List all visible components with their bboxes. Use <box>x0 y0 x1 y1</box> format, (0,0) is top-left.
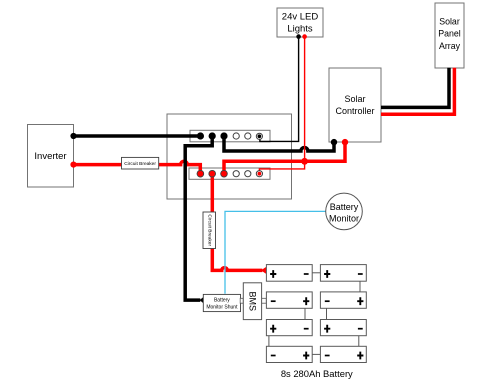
svg-text:Array: Array <box>439 41 461 51</box>
battery cell B3 <box>266 292 312 308</box>
svg-text:BMS: BMS <box>247 291 257 311</box>
negative bus terminals <box>197 133 263 140</box>
svg-text:Controller: Controller <box>335 106 374 116</box>
svg-text:Battery: Battery <box>214 298 230 304</box>
wire positive bus through CB2 to battery positive (red, hop over cyan) <box>212 174 262 271</box>
negative bus bar <box>190 130 270 142</box>
battery monitor shunt <box>203 294 240 311</box>
controller positive terminal <box>342 139 348 145</box>
wire negative bus to battery monitor shunt (black) <box>185 136 212 300</box>
wire LED negative to bus (thin black) <box>260 37 299 142</box>
battery link rows2-3 left column <box>304 308 306 319</box>
circuit breaker CB2 (battery positive) <box>203 212 216 249</box>
inverter negative terminal <box>70 133 76 139</box>
battery link rows3-4 right column <box>358 336 360 347</box>
battery cell B1 <box>266 265 312 282</box>
battery link rows1-2 right column <box>359 281 361 292</box>
svg-text:Panel: Panel <box>438 29 461 39</box>
battery cell B7 <box>266 346 312 362</box>
inverter positive terminal <box>70 162 76 168</box>
battery cell B4 <box>320 292 366 308</box>
controller negative terminal <box>331 139 337 145</box>
24v LED lights <box>277 8 323 37</box>
wire solar panel positive to controller (red) <box>381 68 454 114</box>
wire inverter negative to bus (black) <box>74 134 201 138</box>
solar controller <box>329 68 381 142</box>
svg-text:Solar: Solar <box>439 17 460 27</box>
positive bus terminals <box>197 170 262 177</box>
battery cell B5 <box>266 320 312 336</box>
battery cell B8 <box>320 346 366 362</box>
battery link rows2-3 right column <box>326 308 328 319</box>
wire battery monitor to shunt (cyan) <box>225 211 326 293</box>
svg-text:Lights: Lights <box>287 24 313 35</box>
battery monitor <box>326 193 363 230</box>
svg-text:Monitor Shunt: Monitor Shunt <box>206 304 238 310</box>
junction box enclosure <box>167 114 292 199</box>
inverter <box>28 125 74 188</box>
battery link row4 left-right <box>312 353 320 355</box>
battery link row1 left-right <box>312 272 320 274</box>
svg-text:Monitor: Monitor <box>329 214 359 224</box>
positive bus bar <box>189 168 270 179</box>
junction node LED positive to controller wire <box>301 158 308 165</box>
battery link rows3-4 left column <box>268 336 270 347</box>
svg-text:Battery: Battery <box>330 202 359 212</box>
wire LED positive to bus (thin red) <box>259 37 304 174</box>
LED negative terminal <box>296 34 301 39</box>
wire solar panel negative to controller (black) <box>381 68 449 108</box>
circuit breaker CB1 (inverter positive) <box>122 157 159 169</box>
BMS <box>240 283 266 320</box>
LED positive terminal <box>302 34 307 39</box>
svg-text:Solar: Solar <box>344 94 365 104</box>
connector lug black at shunt <box>200 297 204 304</box>
battery cell B2 <box>320 265 366 282</box>
wire solar controller positive to bus (red) <box>224 142 345 174</box>
wire inverter positive to bus via CB1 (red, hop over black vertical) <box>74 161 201 173</box>
svg-text:8s 280Ah Battery: 8s 280Ah Battery <box>281 368 353 379</box>
wire negative bus to solar controller (black, hop over LED red wire) <box>224 136 334 151</box>
connector lug red at battery <box>261 267 267 274</box>
solar panel array <box>435 3 464 68</box>
battery cell B6 <box>320 320 366 336</box>
svg-text:Circuit Breaker: Circuit Breaker <box>207 214 213 246</box>
svg-text:Inverter: Inverter <box>34 151 66 162</box>
svg-text:Circuit Breaker: Circuit Breaker <box>124 161 156 167</box>
svg-text:24v LED: 24v LED <box>282 12 319 23</box>
